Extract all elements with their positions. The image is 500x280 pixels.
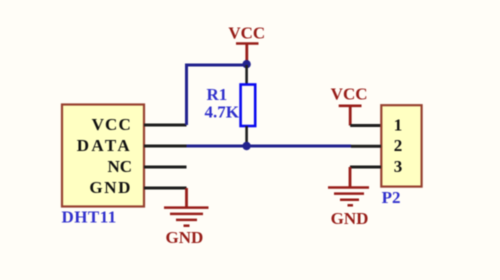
svg-text:4.7K: 4.7K [205,102,240,121]
svg-text:GND: GND [331,209,369,228]
connector P2 body [381,105,421,186]
ground symbol GND (below P2 pin 3) [328,167,369,228]
svg-text:1: 1 [394,115,403,134]
svg-text:GND: GND [89,178,132,197]
svg-text:P2: P2 [382,188,401,207]
svg-text:VCC: VCC [228,24,265,43]
svg-text:VCC: VCC [331,84,368,103]
wire DHT11 VCC pin up to VCC rail [187,65,247,125]
power VCC symbol (top, above R1) [228,24,265,64]
ground symbol GND (below DHT11) [164,188,209,247]
power VCC symbol (left of P2) [331,84,368,125]
pin 3 of P2 [350,157,402,176]
svg-text:R1: R1 [207,85,228,104]
pin DATA of DHT11 [77,136,187,155]
wire DATA net from DHT11 to P2 pin 2 [187,145,352,148]
junction node: VCC rail at R1 top [242,60,250,68]
component DHT11 body [62,105,144,207]
svg-text:DATA: DATA [77,136,132,155]
pin GND of DHT11 [89,178,186,197]
svg-text:NC: NC [107,157,132,176]
pin 2 of P2 [351,136,402,155]
junction node: DATA net at R1 bottom [242,142,250,150]
svg-text:GND: GND [166,228,204,247]
resistor R1 [241,65,256,146]
svg-text:DHT11: DHT11 [62,208,117,227]
svg-text:2: 2 [394,136,403,155]
svg-text:3: 3 [394,157,403,176]
wire VCC to P2 pin 1 [350,124,381,127]
svg-text:VCC: VCC [92,115,132,134]
pin VCC of DHT11 [92,115,187,134]
pin NC of DHT11 [107,157,186,176]
